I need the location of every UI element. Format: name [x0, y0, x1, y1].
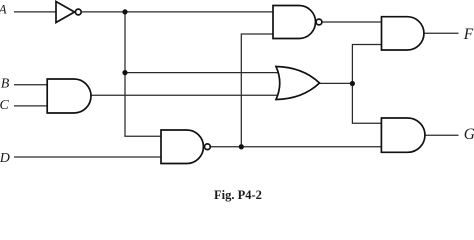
OR gate U3	[276, 67, 320, 100]
AND gate U5 (output F)	[382, 17, 424, 50]
wire OR output branch to AND U5 bottom input and AND U6 top input	[352, 45, 381, 124]
svg-text:F: F	[463, 26, 474, 43]
NAND gate U4 bubble	[205, 144, 211, 150]
wire inverter output to NAND U2 top input (net A')	[82, 11, 274, 13]
NAND gate U2 bubble	[316, 19, 322, 25]
wire NAND U4 output branch up to NAND U2 bottom input	[241, 34, 273, 147]
junction dot NAND U4 output	[239, 144, 244, 149]
svg-text:D: D	[0, 151, 10, 166]
svg-text:Fig. P4-2: Fig. P4-2	[214, 188, 262, 202]
AND gate U1 (inputs B, C)	[47, 79, 91, 113]
wire AND U5 output to F	[424, 32, 459, 34]
svg-text:B: B	[1, 77, 10, 92]
inverter U0 triangle	[56, 2, 75, 23]
svg-text:A: A	[0, 3, 7, 17]
wire NAND U2 output to AND U5 top input	[322, 21, 381, 23]
AND gate U6 (output G)	[381, 118, 425, 152]
junction dot net A' top	[122, 9, 127, 14]
wire OR U3 output to junction	[320, 82, 353, 84]
svg-text:C: C	[0, 98, 10, 113]
wire A input	[14, 11, 56, 13]
wire AND U1 output to OR U3 bottom input	[91, 94, 284, 96]
wire NAND U4 output to AND U6 bottom input	[211, 146, 382, 148]
junction dot net A' at OR branch	[122, 70, 127, 75]
NAND gate U2 (top middle) body	[273, 6, 316, 39]
inverter U0 bubble	[75, 9, 81, 15]
wire A' branch to OR U3 top input	[125, 72, 284, 74]
NAND gate U4 (bottom middle) body	[161, 130, 203, 164]
svg-text:G: G	[464, 126, 474, 143]
junction dot OR output	[350, 81, 355, 86]
wire A' vertical branch down to NAND U4 top input	[125, 12, 161, 136]
wire D input to NAND U4 bottom input	[14, 156, 161, 158]
wire B input	[14, 84, 47, 86]
wire C input	[14, 105, 47, 107]
wire AND U6 output to G	[425, 134, 459, 136]
